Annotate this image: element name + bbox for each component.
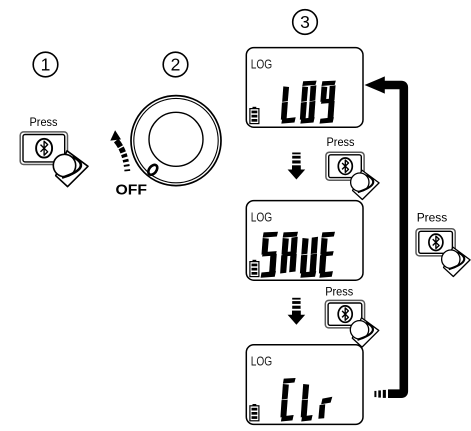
battery indicator on screen 2 xyxy=(250,260,259,277)
7-segment digit 0 xyxy=(300,81,317,124)
bluetooth key button B1 xyxy=(20,132,67,165)
LCD screen 2 xyxy=(246,201,363,281)
7-segment digit 9 xyxy=(319,81,336,124)
svg-text:2: 2 xyxy=(171,55,181,75)
svg-text:Press: Press xyxy=(325,284,353,298)
pressing finger on B2 xyxy=(351,170,379,199)
rotary dial outer ring xyxy=(131,96,221,186)
bluetooth key button B3 xyxy=(325,300,364,328)
svg-text:Press: Press xyxy=(327,135,355,149)
14-segment letter A xyxy=(280,232,298,274)
7-segment letter L xyxy=(301,384,315,422)
pressing finger on B3 xyxy=(350,318,378,347)
7-segment letter r xyxy=(318,397,332,419)
return arrow from screen 3 back to screen 1 xyxy=(365,76,404,398)
svg-text:1: 1 xyxy=(41,55,51,75)
rotary dial knob xyxy=(149,112,203,166)
pressing finger on B4 xyxy=(442,247,470,276)
svg-text:LOG: LOG xyxy=(251,56,273,71)
step number 3 xyxy=(293,10,318,35)
LCD screen 1 xyxy=(246,48,363,128)
svg-text:Press: Press xyxy=(417,211,448,225)
turn-on rotation arrow xyxy=(110,130,127,172)
14-segment letter S xyxy=(260,232,278,278)
step number 1 xyxy=(33,52,58,77)
LCD screen 3 xyxy=(246,345,363,425)
bluetooth key button B4 (right) xyxy=(416,229,455,256)
7-segment digit L xyxy=(281,86,298,123)
battery indicator on screen 1 xyxy=(250,107,259,124)
14-segment letter E xyxy=(319,232,335,278)
battery indicator on screen 3 xyxy=(250,404,259,421)
pressing finger on B1 xyxy=(53,151,88,187)
bluetooth key button B2 xyxy=(326,152,364,180)
svg-text:3: 3 xyxy=(300,12,310,32)
7-segment letter C xyxy=(280,378,295,422)
svg-text:OFF: OFF xyxy=(116,182,148,199)
step number 2 xyxy=(163,52,188,77)
arrow from screen 2 to screen 3 xyxy=(288,298,306,325)
svg-text:Press: Press xyxy=(30,115,58,129)
dial pointer mark 0 xyxy=(147,163,160,176)
svg-text:LOG: LOG xyxy=(251,354,273,369)
arrow from screen 1 to screen 2 xyxy=(288,153,306,180)
14-segment letter U xyxy=(300,237,318,278)
svg-text:LOG: LOG xyxy=(251,209,273,224)
